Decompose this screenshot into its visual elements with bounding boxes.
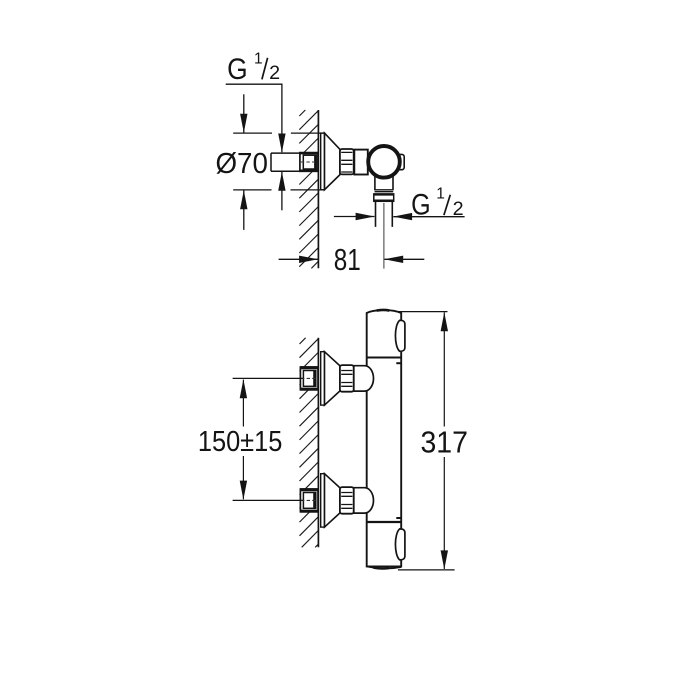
svg-text:Ø70: Ø70 xyxy=(215,148,268,180)
tick above lower seam xyxy=(396,517,401,519)
tick below upper seam xyxy=(396,362,401,364)
svg-text:G: G xyxy=(411,189,431,222)
wall hatch (side view) xyxy=(300,338,319,548)
body bottom edge xyxy=(367,566,402,568)
svg-text:1: 1 xyxy=(254,51,263,68)
body seam lower xyxy=(367,521,402,523)
wall line (top view) xyxy=(317,110,319,268)
dimension G1/2 hose xyxy=(334,216,465,218)
dimension 150±15 xyxy=(233,378,303,500)
svg-text:G: G xyxy=(227,53,248,86)
hose centerline extension xyxy=(383,203,385,269)
wall hatch (top view) xyxy=(299,110,318,268)
escutcheon cone (upper inlet) xyxy=(325,352,341,405)
escutcheon rosette rim (lower inlet) xyxy=(321,474,325,527)
union nut (lower inlet) xyxy=(340,487,354,514)
G1/2 top-left leader lines xyxy=(226,84,282,210)
svg-text:150±15: 150±15 xyxy=(198,426,283,458)
supply pipe stub G1/2 (top view) xyxy=(271,153,300,171)
connection collar (top view) xyxy=(354,150,368,175)
thermostat body (side view) xyxy=(367,310,402,567)
wall fitting square (upper inlet) xyxy=(300,367,318,390)
hose nut band (top view) xyxy=(374,194,394,201)
outlet cap right (top view) xyxy=(397,154,404,169)
collar and connection boss (lower inlet) xyxy=(354,488,374,513)
volume knob (bottom) xyxy=(395,529,404,560)
svg-text:1: 1 xyxy=(436,186,445,203)
svg-text:2: 2 xyxy=(453,199,464,220)
dimension 317 xyxy=(398,312,455,570)
union nut (top view) xyxy=(340,149,354,174)
wall line (side view) xyxy=(317,338,319,548)
shower hose (top view) xyxy=(376,201,393,227)
dimension Ø70 xyxy=(233,94,323,230)
dimension 81 xyxy=(279,258,425,260)
valve round body (top view) xyxy=(368,146,400,178)
dimension G1/2 top-left label xyxy=(227,51,280,86)
escutcheon rosette rim (upper inlet) xyxy=(321,352,325,405)
svg-text:81: 81 xyxy=(334,242,361,277)
body seam upper xyxy=(367,357,402,359)
escutcheon rosette rim (top view) xyxy=(321,133,325,190)
svg-text:2: 2 xyxy=(269,63,280,84)
temperature knob (top) xyxy=(395,320,404,351)
outlet neck below body (top view) xyxy=(374,177,393,192)
wall fitting square (top view) xyxy=(300,153,318,172)
collar and connection boss (upper inlet) xyxy=(354,366,374,391)
union nut (upper inlet) xyxy=(340,365,354,392)
escutcheon cone (top view) xyxy=(325,133,341,190)
wall fitting square (lower inlet) xyxy=(300,489,318,512)
escutcheon cone (lower inlet) xyxy=(325,474,341,527)
svg-text:317: 317 xyxy=(420,424,468,459)
